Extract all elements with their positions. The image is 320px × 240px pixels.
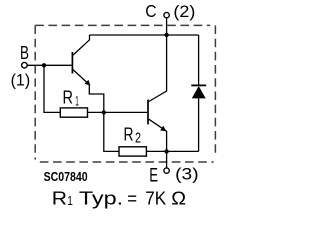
transistor Q1 emitter stroke with step down to junction [73,70,104,113]
wire: C terminal lead [166,18,168,35]
svg-text:7K: 7K [145,187,166,208]
terminal C circle [164,12,169,17]
svg-text:(1): (1) [11,71,31,90]
svg-text:2: 2 [135,130,141,147]
svg-text:(2): (2) [173,2,195,21]
diode D1 triangle (anode, pointing up) [192,86,206,98]
svg-text:SC07840: SC07840 [44,170,88,184]
svg-text:1: 1 [67,193,73,208]
svg-text:R: R [124,125,134,145]
terminal B circle [22,62,28,68]
wire: R1 right lead to Q2 base bar [88,111,148,113]
arrowhead on Q1 emitter [85,80,91,86]
transistor Q2 collector stroke [149,35,167,102]
transistor Q1 collector stroke up to top wire [73,35,90,55]
arrowhead on Q2 emitter [160,126,166,131]
svg-text:Typ.: Typ. [79,187,123,208]
wire: R2 right lead across to diode bottom [146,150,198,152]
transistor Q2 base bar [147,100,149,125]
transistor Q2 emitter stroke down to E junction [149,119,167,151]
resistor R2 body [119,147,146,156]
svg-text:1: 1 [75,92,79,108]
wire: from junction down to R2 left lead [104,112,119,151]
svg-text:C: C [145,1,156,21]
wire: diode branch vertical (top segment) [198,35,200,86]
transistor Q1 base bar [71,52,73,74]
svg-text:Ω: Ω [171,187,186,208]
node: junction dot R1 / Q1 emitter / R2 branch [102,110,106,114]
node: junction dot on top rail at C [164,33,168,37]
svg-text:R: R [63,88,74,108]
wire: base lead from terminal B to Q1 base bar [27,64,71,66]
node: junction dot R2 / emitter line [164,149,168,153]
wire: top rail from Q1 collector to diode top [90,34,199,36]
terminal E circle [164,168,169,173]
node: junction dot on base wire [42,63,46,67]
diode D1 cathode bar [191,84,206,86]
resistor R1 body [60,108,87,117]
svg-text:=: = [127,187,137,208]
svg-text:E: E [149,166,158,187]
wire: from base-wire junction down to R1 left lead [44,65,60,112]
wire: E terminal lead [166,151,168,167]
dashed device outline box [35,25,215,162]
svg-text:(3): (3) [175,165,198,184]
svg-text:B: B [20,43,29,63]
svg-text:R: R [52,187,67,208]
wire: diode branch vertical (bottom segment) [198,98,200,151]
